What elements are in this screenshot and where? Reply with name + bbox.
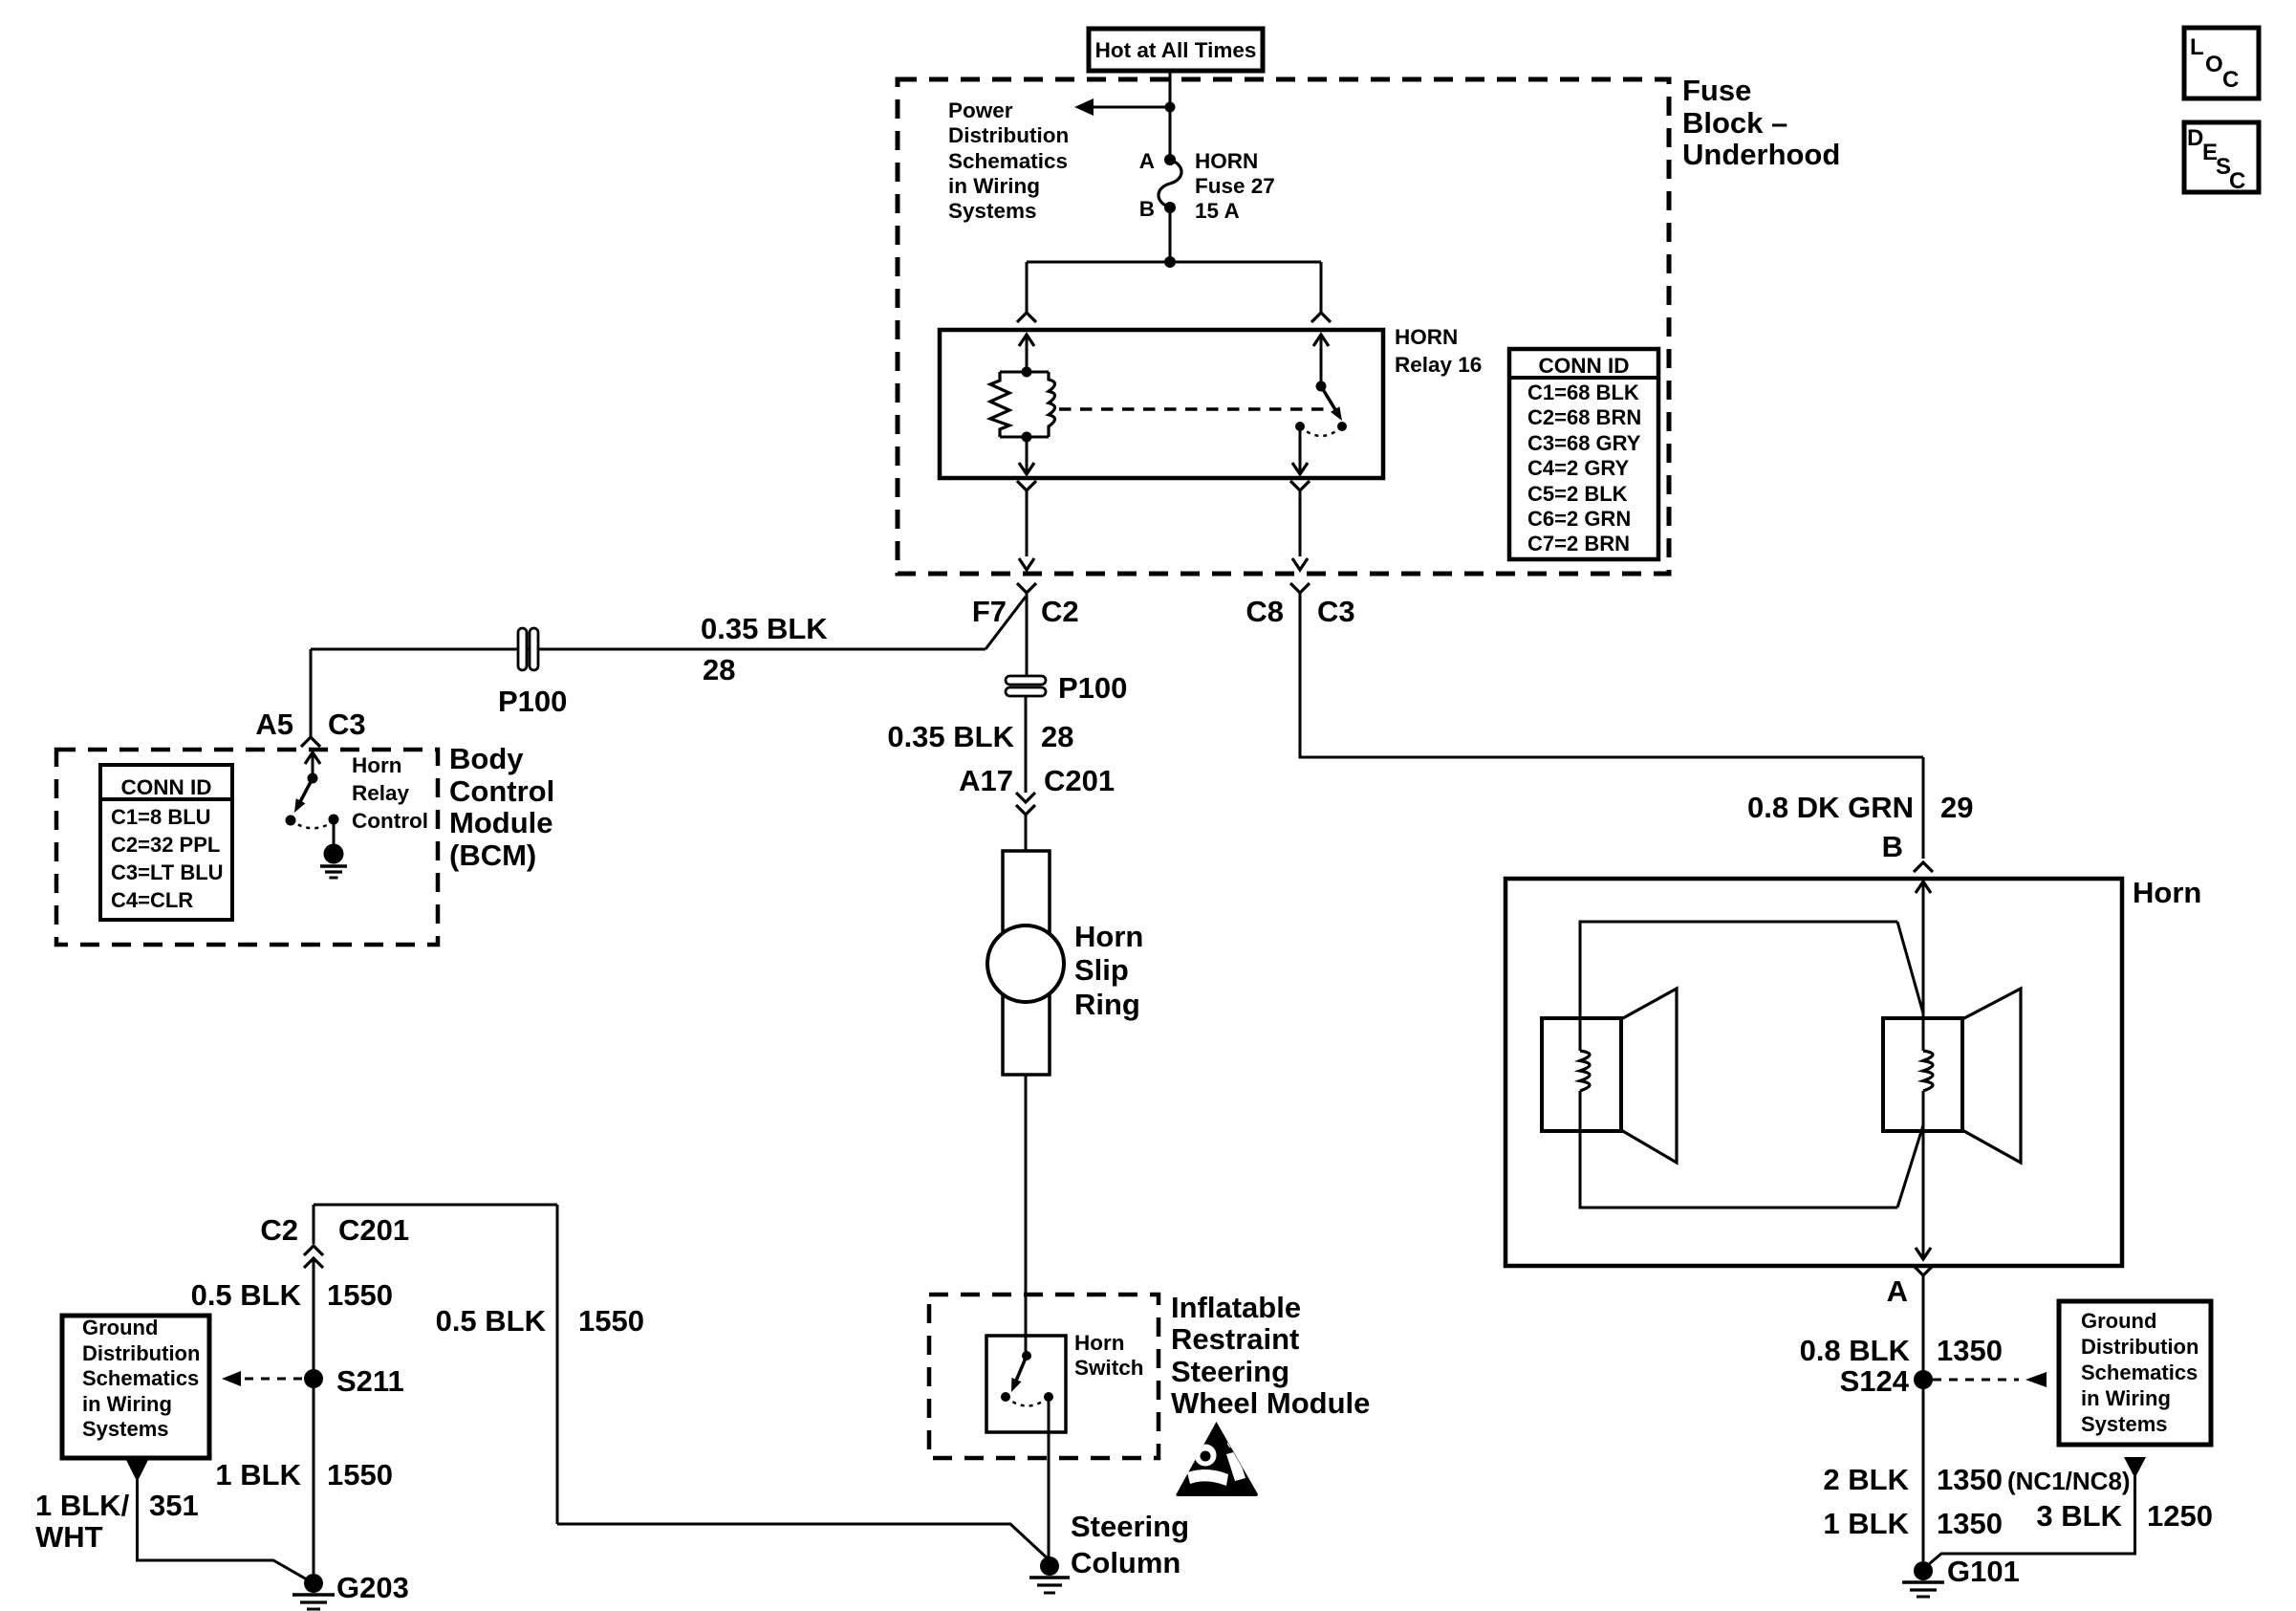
svg-text:Schematics: Schematics xyxy=(948,149,1068,173)
svg-text:Relay: Relay xyxy=(352,781,410,805)
fuse F27 pin B terminal xyxy=(1164,202,1176,213)
relay coil loop bottom xyxy=(1000,436,1049,439)
svg-text:Horn: Horn xyxy=(1074,920,1143,953)
svg-text:in Wiring: in Wiring xyxy=(2081,1386,2171,1410)
connector chevron relay switch output xyxy=(1290,481,1310,490)
arrow from ground distribution right down xyxy=(2124,1457,2146,1478)
wire 3 BLK 1250 to G101 xyxy=(1923,1476,2135,1569)
svg-text:S124: S124 xyxy=(1840,1364,1910,1398)
svg-text:CONN ID: CONN ID xyxy=(1539,354,1630,378)
svg-text:P100: P100 xyxy=(1058,671,1127,705)
fuse block - underhood dashed boundary box xyxy=(898,79,1669,574)
wire horn switch to steering column ground xyxy=(1048,1397,1051,1560)
svg-text:Steering: Steering xyxy=(1071,1510,1189,1543)
svg-text:Body: Body xyxy=(449,742,524,775)
svg-text:(NC1/NC8): (NC1/NC8) xyxy=(2007,1467,2131,1495)
svg-text:Restraint: Restraint xyxy=(1171,1322,1299,1356)
svg-text:WHT: WHT xyxy=(35,1520,103,1554)
wire slip ring to horn switch xyxy=(1025,1075,1028,1356)
svg-text:A: A xyxy=(1139,149,1155,173)
svg-text:A: A xyxy=(1887,1274,1908,1308)
wire bus right drop to relay switch pin xyxy=(1320,262,1323,313)
svg-text:29: 29 xyxy=(1940,791,1973,824)
node BCM internal ground dot xyxy=(324,844,344,864)
svg-text:Control: Control xyxy=(352,809,428,833)
svg-text:F7: F7 xyxy=(972,595,1007,628)
svg-text:C2: C2 xyxy=(260,1213,298,1247)
svg-text:28: 28 xyxy=(703,653,735,686)
svg-text:0.35 BLK: 0.35 BLK xyxy=(887,720,1014,753)
node G203 ground dot xyxy=(304,1574,323,1593)
connector chevron C8 below fuse block xyxy=(1290,583,1310,593)
connector chevron relay switch supply pin xyxy=(1311,313,1331,322)
svg-text:Ground: Ground xyxy=(82,1316,158,1339)
wire right horn coil to pin A with arrow xyxy=(1922,1091,1925,1256)
relay coil loop top xyxy=(1000,371,1049,374)
connector chevron relay coil output xyxy=(1017,481,1036,490)
node battery feed junction xyxy=(1165,102,1176,113)
wire relay switch output with arrow xyxy=(1299,426,1302,472)
wire F7 down center run xyxy=(1026,593,1029,676)
svg-text:1 BLK/: 1 BLK/ xyxy=(35,1489,130,1522)
svg-text:C3: C3 xyxy=(328,708,366,741)
ground steering column xyxy=(1029,1576,1070,1579)
svg-text:Block –: Block – xyxy=(1682,106,1787,140)
svg-text:Ring: Ring xyxy=(1074,988,1140,1021)
inline connector P100 left grommet xyxy=(518,628,527,670)
right horn flare xyxy=(1962,989,2021,1163)
wire 0.5 BLK 1550 right leg down xyxy=(556,1205,559,1524)
body control module dashed box xyxy=(56,750,438,945)
svg-text:0.5 BLK: 0.5 BLK xyxy=(191,1278,302,1312)
wire horn A to S124 xyxy=(1922,1275,1925,1380)
svg-text:G203: G203 xyxy=(336,1571,409,1604)
splice S211 xyxy=(304,1369,323,1388)
Hot at All Times box xyxy=(1089,29,1263,71)
wire branch to BCM diagonal xyxy=(986,597,1026,649)
svg-text:Fuse: Fuse xyxy=(1682,74,1751,107)
horn internal loop to left horn xyxy=(1580,922,1897,1051)
wire 0.5 BLK 1550 top run xyxy=(314,1204,557,1207)
svg-text:C1=8 BLU: C1=8 BLU xyxy=(111,805,211,829)
svg-text:1 BLK: 1 BLK xyxy=(1823,1507,1909,1540)
svg-text:351: 351 xyxy=(149,1489,199,1522)
svg-text:Ground: Ground xyxy=(2081,1309,2156,1333)
svg-text:0.8 BLK: 0.8 BLK xyxy=(1800,1334,1911,1367)
ground distribution schematics box left xyxy=(62,1316,209,1458)
svg-text:1250: 1250 xyxy=(2147,1499,2213,1533)
wire C201 to horn slip ring xyxy=(1025,815,1028,851)
svg-text:Power: Power xyxy=(948,98,1013,122)
svg-text:Horn: Horn xyxy=(352,753,402,777)
ground BCM internal xyxy=(320,864,347,868)
node horn switch pivot xyxy=(1022,1351,1031,1361)
wire junction to fuse pin A xyxy=(1169,107,1172,160)
horn switch blade xyxy=(1016,1356,1027,1382)
svg-text:1 BLK: 1 BLK xyxy=(215,1458,301,1491)
svg-text:Schematics: Schematics xyxy=(2081,1361,2198,1384)
wire from Hot at All Times into fuse block xyxy=(1169,71,1172,107)
svg-text:C3=68 GRY: C3=68 GRY xyxy=(1527,431,1641,455)
node relay switch NO contact right xyxy=(1337,422,1347,431)
connector chevron A5 BCM xyxy=(301,737,320,747)
wire relay switch common pin with arrow xyxy=(1320,337,1323,386)
svg-text:Inflatable: Inflatable xyxy=(1171,1291,1301,1324)
svg-text:C201: C201 xyxy=(1044,764,1115,797)
svg-text:Distribution: Distribution xyxy=(948,123,1069,147)
fuse F27 pin A terminal xyxy=(1164,154,1176,165)
dashed link S211 to ground distribution xyxy=(245,1378,302,1381)
svg-text:1350: 1350 xyxy=(1937,1463,2003,1496)
svg-text:C6=2 GRN: C6=2 GRN xyxy=(1527,507,1631,531)
inflatable restraint steering wheel module dashed box xyxy=(929,1295,1159,1458)
svg-text:in Wiring: in Wiring xyxy=(82,1392,172,1416)
svg-text:C2: C2 xyxy=(1041,595,1079,628)
dashed travel arc BCM driver xyxy=(291,820,334,828)
svg-text:Steering: Steering xyxy=(1171,1355,1289,1388)
arrow from ground distribution down xyxy=(126,1460,148,1482)
node horn switch contact right xyxy=(1044,1392,1053,1402)
svg-text:C2=68 BRN: C2=68 BRN xyxy=(1527,405,1641,429)
svg-text:Module: Module xyxy=(449,806,553,839)
svg-text:P100: P100 xyxy=(498,685,567,718)
BCM driver switch blade xyxy=(300,778,313,802)
node bus junction xyxy=(1164,256,1176,268)
svg-text:Switch: Switch xyxy=(1074,1356,1144,1380)
svg-text:Distribution: Distribution xyxy=(82,1341,200,1365)
inline connector P100 center grommet xyxy=(1006,676,1046,685)
svg-text:A17: A17 xyxy=(959,764,1013,797)
svg-text:Control: Control xyxy=(449,774,554,808)
svg-text:CONN ID: CONN ID xyxy=(121,775,212,799)
horn slip ring body xyxy=(1003,851,1050,1075)
wire BCM branch drop to A5 xyxy=(310,649,313,736)
svg-text:15 A: 15 A xyxy=(1195,199,1240,223)
svg-text:Fuse 27: Fuse 27 xyxy=(1195,174,1275,198)
svg-text:HORN: HORN xyxy=(1195,149,1258,173)
svg-text:A5: A5 xyxy=(255,708,293,741)
svg-text:28: 28 xyxy=(1041,720,1073,753)
node relay coil top xyxy=(1022,367,1032,378)
svg-text:Relay 16: Relay 16 xyxy=(1395,353,1482,377)
connector double chevron A17 C201 xyxy=(1016,793,1035,802)
dashed travel arc relay switch xyxy=(1300,426,1342,436)
node BCM driver contact xyxy=(286,816,296,826)
svg-text:Underhood: Underhood xyxy=(1682,138,1840,171)
wire C8 down and across to horn xyxy=(1300,593,1923,757)
dashed actuation link coil to switch xyxy=(1059,407,1332,410)
svg-text:C4=CLR: C4=CLR xyxy=(111,888,193,912)
wire 1 BLK WHT 351 to G203 xyxy=(138,1480,314,1583)
svg-text:C7=2 BRN: C7=2 BRN xyxy=(1527,532,1630,555)
svg-text:C3=LT BLU: C3=LT BLU xyxy=(111,860,224,884)
svg-text:Horn: Horn xyxy=(2133,876,2201,909)
svg-text:Column: Column xyxy=(1071,1546,1180,1579)
svg-text:C1=68 BLK: C1=68 BLK xyxy=(1527,381,1639,404)
arrow to ground distribution left xyxy=(222,1371,241,1386)
relay K16 HORN Relay box xyxy=(940,330,1383,478)
svg-text:1550: 1550 xyxy=(327,1278,393,1312)
svg-text:0.5 BLK: 0.5 BLK xyxy=(436,1304,547,1338)
arrow to S124 from ground distribution xyxy=(2025,1372,2047,1387)
wire 0.5 BLK 1550 to steering column xyxy=(557,1524,1050,1560)
svg-text:Systems: Systems xyxy=(82,1417,169,1441)
wire relay switch output to fuse block edge xyxy=(1299,490,1302,556)
svg-text:Hot at All Times: Hot at All Times xyxy=(1095,38,1257,62)
node relay switch common contact xyxy=(1316,381,1327,392)
horn switch box xyxy=(986,1336,1066,1432)
dashed travel arc horn switch xyxy=(1006,1397,1049,1406)
fuse element HORN Fuse 27 15 A xyxy=(1159,160,1181,207)
svg-text:C5=2 BLK: C5=2 BLK xyxy=(1527,482,1628,506)
left horn flare xyxy=(1621,989,1677,1163)
svg-text:B: B xyxy=(1139,197,1155,221)
svg-text:HORN: HORN xyxy=(1395,325,1458,349)
wire bus left drop to relay coil pin xyxy=(1026,262,1029,313)
node G101 ground dot xyxy=(1914,1561,1933,1580)
wire S124 to G101 xyxy=(1922,1380,1925,1561)
svg-text:3 BLK: 3 BLK xyxy=(2036,1499,2122,1533)
svg-text:C3: C3 xyxy=(1317,595,1355,628)
wire relay coil output to fuse block edge xyxy=(1026,490,1029,556)
wire fuse B to bus junction xyxy=(1169,207,1172,262)
inductor left horn coil xyxy=(1580,1051,1590,1091)
svg-text:1550: 1550 xyxy=(578,1304,644,1338)
svg-text:L: L xyxy=(2190,34,2204,60)
splice S124 xyxy=(1914,1370,1933,1389)
inductor relay coil winding xyxy=(1049,372,1055,437)
node BCM driver pivot xyxy=(308,773,318,784)
svg-text:0.35 BLK: 0.35 BLK xyxy=(701,612,828,645)
inductor right horn coil xyxy=(1923,1051,1933,1091)
svg-text:B: B xyxy=(1882,830,1903,863)
svg-text:Systems: Systems xyxy=(2081,1412,2168,1436)
svg-text:C8: C8 xyxy=(1245,595,1284,628)
svg-text:Horn: Horn xyxy=(1074,1331,1125,1355)
wire BCM driver pin with arrow xyxy=(312,755,314,778)
svg-text:Schematics: Schematics xyxy=(82,1366,199,1390)
svg-text:2 BLK: 2 BLK xyxy=(1823,1463,1909,1496)
svg-text:1350: 1350 xyxy=(1937,1334,2003,1367)
node steering column ground splice xyxy=(1040,1557,1059,1576)
wire C201 to S211 xyxy=(313,1258,315,1377)
wire bus to relay pins xyxy=(1027,261,1321,264)
ground G101 symbol xyxy=(1902,1580,1944,1584)
left horn coil body xyxy=(1542,1018,1621,1131)
LOC reference box xyxy=(2184,28,2259,98)
right horn coil body xyxy=(1883,1018,1962,1131)
svg-text:C: C xyxy=(2222,67,2239,93)
dashed link S124 to ground distribution xyxy=(1933,1379,2019,1382)
svg-text:Slip: Slip xyxy=(1074,953,1129,987)
svg-text:(BCM): (BCM) xyxy=(449,838,536,872)
ground G203 symbol xyxy=(292,1593,335,1597)
connector chevron relay coil supply pin xyxy=(1017,313,1036,322)
wire power distribution branch xyxy=(1092,106,1170,109)
connector double chevron C2 C201 xyxy=(304,1246,323,1255)
arrow to Power Distribution Schematics xyxy=(1074,98,1094,116)
svg-text:C: C xyxy=(2229,168,2245,194)
CONN ID table fuse block underhood xyxy=(1509,349,1658,559)
wire S211 to G203 xyxy=(313,1379,315,1574)
svg-text:Wheel Module: Wheel Module xyxy=(1171,1386,1370,1420)
ground distribution schematics box right xyxy=(2059,1301,2211,1445)
svg-text:C201: C201 xyxy=(338,1213,409,1247)
svg-text:Distribution: Distribution xyxy=(2081,1335,2199,1359)
svg-text:in Wiring: in Wiring xyxy=(948,174,1040,198)
svg-text:C2=32 PPL: C2=32 PPL xyxy=(111,833,220,857)
wire BCM internal ground xyxy=(333,819,336,844)
CONN ID table BCM xyxy=(100,765,232,920)
svg-text:S211: S211 xyxy=(336,1364,404,1398)
svg-text:G101: G101 xyxy=(1947,1555,2020,1588)
connector chevron horn pin A xyxy=(1914,1266,1933,1275)
wire relay coil bottom pin with arrow xyxy=(1026,437,1029,472)
svg-text:Systems: Systems xyxy=(948,199,1037,223)
node relay switch NO contact left xyxy=(1295,422,1305,431)
node horn switch contact left xyxy=(1001,1392,1010,1402)
wire relay coil top pin with arrow xyxy=(1026,337,1029,372)
svg-text:O: O xyxy=(2205,52,2223,77)
wire P100 to C201 xyxy=(1025,696,1028,793)
DESC reference box xyxy=(2184,122,2259,192)
wire horn B pin into right horn coil with arrow xyxy=(1922,883,1925,1051)
svg-text:0.8 DK GRN: 0.8 DK GRN xyxy=(1747,791,1914,824)
svg-text:1550: 1550 xyxy=(327,1458,393,1491)
svg-text:D: D xyxy=(2187,125,2203,151)
node relay coil bottom xyxy=(1022,432,1032,443)
wire 0.8 DK GRN drop to horn B xyxy=(1922,757,1925,859)
connector chevron horn pin B xyxy=(1914,862,1933,872)
svg-text:C4=2 GRY: C4=2 GRY xyxy=(1527,456,1630,480)
relay switch blade xyxy=(1321,386,1336,411)
horn assembly box xyxy=(1505,879,2122,1266)
node BCM ground contact xyxy=(329,815,339,825)
svg-text:1350: 1350 xyxy=(1937,1507,2003,1540)
wire stub above C201 splice branch xyxy=(313,1205,315,1244)
wire BCM branch horizontal run xyxy=(311,648,986,651)
resistor relay coil suppression xyxy=(990,372,1009,437)
connector chevron F7 below fuse block xyxy=(1017,583,1036,593)
